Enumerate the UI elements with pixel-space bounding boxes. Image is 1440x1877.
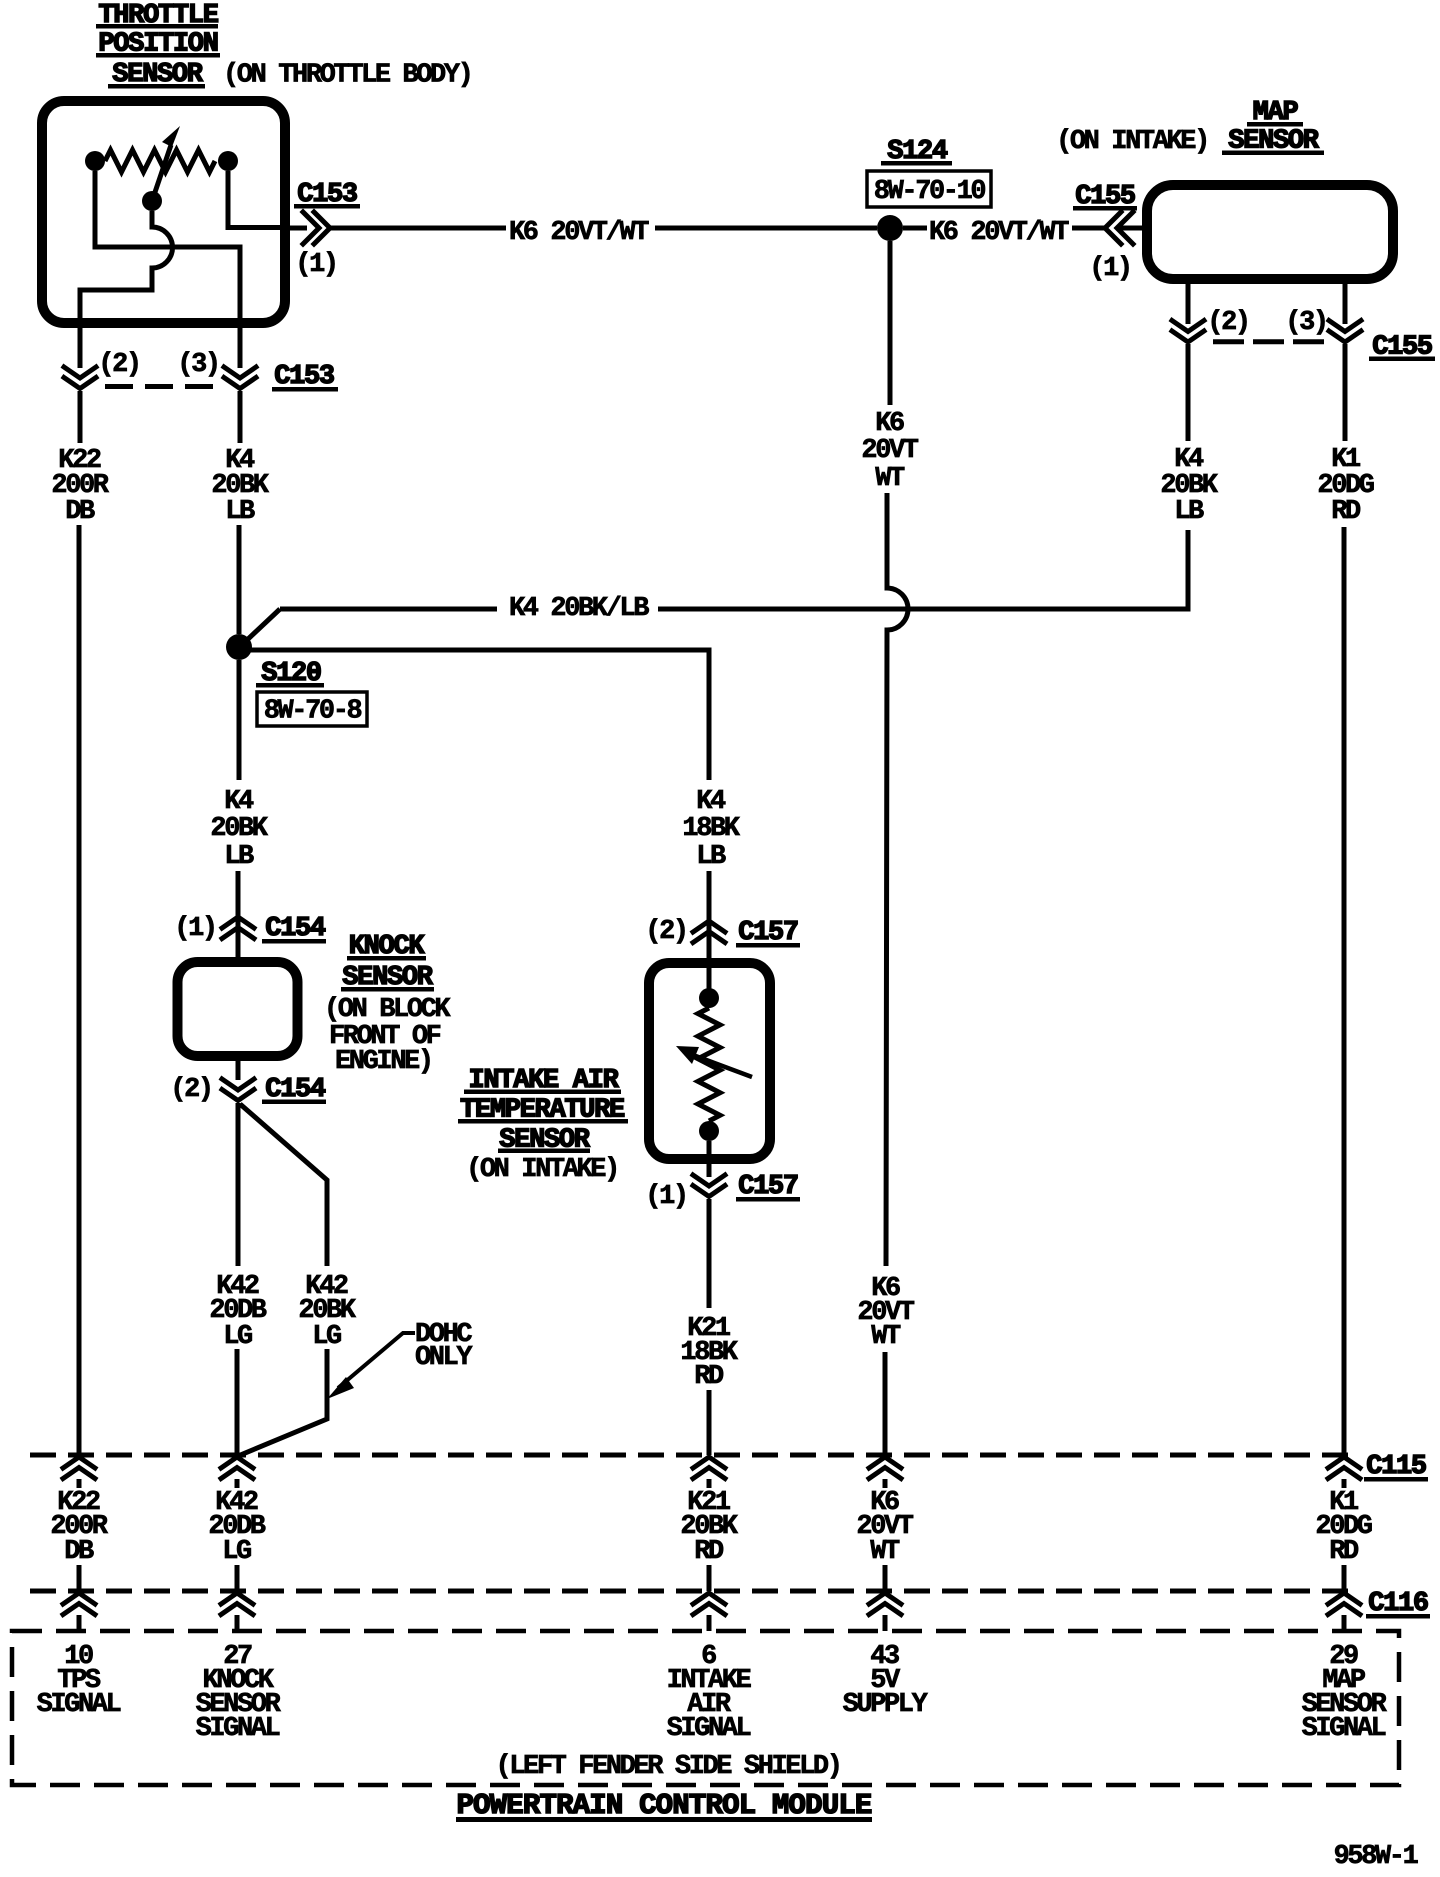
svg-text:(2): (2)	[1207, 308, 1248, 338]
wire label K6 20VT WT upper	[861, 409, 918, 494]
connector C154 pin 1 chevrons	[222, 917, 254, 939]
potentiometer left terminal dot	[85, 151, 105, 171]
wire K1 from chevron to label	[1343, 344, 1348, 441]
svg-text:(2): (2)	[98, 350, 139, 380]
connector C155 pin 1 label	[1073, 182, 1137, 212]
potentiometer wiper arrow	[152, 126, 180, 201]
potentiometer right terminal dot	[218, 151, 238, 171]
connector C116 chevrons col MAP	[1328, 1593, 1360, 1615]
wire S120 branch to intake air temperature sensor	[250, 650, 709, 780]
connector C115 chevrons col K6	[869, 1457, 901, 1479]
svg-text:(1): (1)	[1089, 254, 1130, 284]
wire stub K6 below C115	[883, 1479, 888, 1488]
svg-text:(1): (1)	[645, 1182, 686, 1212]
svg-text:WT: WT	[870, 1537, 900, 1567]
PCM pin 10 TPS SIGNAL	[37, 1642, 121, 1720]
wire diagonal from S120 to K4 horizontal run	[247, 609, 280, 640]
potentiometer wiper dot	[142, 191, 162, 211]
svg-text:LG: LG	[312, 1322, 341, 1352]
wire K4 upper stub	[238, 391, 243, 443]
PCM pin 43 5V SUPPLY	[843, 1642, 929, 1720]
DOHC ONLY leader arrow	[327, 1333, 415, 1399]
svg-text:(LEFT FENDER SIDE SHIELD): (LEFT FENDER SIDE SHIELD)	[495, 1752, 840, 1782]
connector C157 pin 1 chevrons	[693, 1175, 725, 1197]
svg-text:8W-70-10: 8W-70-10	[874, 177, 986, 207]
wire label K4 20BK LB map column	[1160, 445, 1218, 527]
svg-text:ONLY: ONLY	[415, 1343, 473, 1373]
connector C115 chevrons col MAP	[1328, 1457, 1360, 1479]
MAP sensor heading	[1056, 98, 1324, 157]
svg-text:20BK: 20BK	[210, 814, 268, 844]
svg-text:(ON INTAKE): (ON INTAKE)	[466, 1155, 618, 1185]
svg-text:LB: LB	[225, 497, 255, 527]
knock sensor heading	[324, 932, 451, 1077]
connector C157 pin 2 label	[736, 918, 800, 948]
svg-text:LB: LB	[1174, 497, 1204, 527]
wire label K4 20BK LB upper	[211, 446, 269, 527]
svg-text:K4 20BK/LB: K4 20BK/LB	[509, 594, 649, 624]
powertrain control module dashed box	[12, 1631, 1399, 1785]
connector C115 dashed line	[30, 1453, 1356, 1458]
svg-text:(1): (1)	[295, 250, 336, 280]
wire stub K1 to C116	[1342, 1565, 1347, 1591]
splice S120 dot	[226, 634, 252, 660]
wire K42 20BK LG branch diagonal from C154	[240, 1104, 327, 1266]
potentiometer resistor	[105, 150, 215, 172]
PCM pin 27 KNOCK SENSOR SIGNAL	[196, 1642, 282, 1744]
splice S124 dot	[877, 215, 903, 241]
svg-text:LB: LB	[696, 842, 726, 872]
svg-text:K6 20VT/WT: K6 20VT/WT	[509, 218, 649, 248]
wire K42 20DB LG to C115	[235, 1349, 240, 1455]
wire label K21 20BK RD lower	[680, 1488, 738, 1567]
wire stub pin 29	[1342, 1615, 1347, 1631]
wire stub K21 to C116	[707, 1565, 712, 1591]
wire label K42 20DB LG	[209, 1272, 266, 1352]
wire K21 to C115	[707, 1390, 712, 1455]
wire MAP pin 3 stub	[1343, 284, 1348, 324]
wire label K6 20VT WT lower2	[856, 1488, 913, 1567]
wire TPS pin3 stub below box	[238, 328, 243, 368]
splice S120 heading	[256, 659, 324, 689]
svg-text:ENGINE): ENGINE)	[335, 1047, 432, 1077]
svg-text:WT: WT	[875, 464, 905, 494]
svg-text:(3): (3)	[177, 350, 218, 380]
wire label K22 200R DB	[51, 446, 109, 527]
svg-text:(1): (1)	[174, 914, 215, 944]
connector C154 pin 2 chevrons	[222, 1079, 254, 1101]
svg-text:RD: RD	[694, 1362, 724, 1392]
svg-text:(ON INTAKE): (ON INTAKE)	[1056, 127, 1208, 157]
PCM pin 29 MAP SENSOR SIGNAL	[1302, 1642, 1388, 1744]
intake air temperature sensor heading	[458, 1066, 628, 1185]
svg-text:K4: K4	[696, 787, 726, 817]
svg-text:958W-1: 958W-1	[1334, 1842, 1419, 1872]
connector C116 label	[1366, 1589, 1430, 1619]
connector C155 dashed link	[1213, 339, 1327, 344]
wire stub pin 6	[707, 1615, 712, 1631]
wire stub pin 43	[883, 1615, 888, 1631]
wire stub K42 to C116	[235, 1565, 240, 1591]
svg-text:(ON THROTTLE BODY): (ON THROTTLE BODY)	[223, 61, 471, 91]
wire K6 20VT/WT from TPS to S124	[287, 226, 877, 231]
svg-text:SIGNAL: SIGNAL	[196, 1714, 280, 1744]
intake air temperature sensor box	[649, 963, 770, 1159]
svg-text:8W-70-8: 8W-70-8	[264, 697, 362, 727]
wire MAP pin 2 stub	[1186, 284, 1191, 324]
wire label K1 20DG RD lower	[1315, 1488, 1371, 1567]
wire label K6 20VT WT lower	[857, 1274, 914, 1352]
wire IAT internal bottom	[707, 1141, 712, 1177]
connector C154 pin 1 label	[262, 914, 326, 944]
wire TPS pin1 internal (right dot to C153-1)	[228, 171, 290, 228]
connector C115 chevrons col knock	[221, 1457, 253, 1479]
wire IAT internal top	[707, 958, 712, 990]
wire K4 below S120	[237, 660, 242, 780]
wire TPS pin2 internal with hop over pin3 wire	[80, 211, 172, 332]
connector C116 chevrons col TPS	[63, 1593, 95, 1615]
IAT thermistor zigzag resistor	[698, 1008, 720, 1121]
svg-text:SIGNAL: SIGNAL	[1302, 1714, 1386, 1744]
wire stub K22 to C116	[77, 1565, 82, 1591]
wire K4 18BK LB to C157	[707, 871, 712, 958]
svg-text:SUPPLY: SUPPLY	[843, 1690, 929, 1720]
PCM pin 6 INTAKE AIR SIGNAL	[667, 1642, 752, 1744]
connector C155 pin 2 chevrons	[1172, 321, 1204, 343]
connector C153 pin 3 chevrons	[224, 367, 256, 389]
wire label K42 20BK LG	[298, 1272, 356, 1352]
wire label K1 20DG RD upper	[1317, 445, 1373, 527]
svg-text:LB: LB	[224, 842, 254, 872]
connector C155 label	[1369, 333, 1435, 363]
connector C116 chevrons col K6	[869, 1593, 901, 1615]
wire label K4 18BK LB	[682, 787, 740, 872]
connector C153 dashed link	[105, 384, 214, 389]
wire label K21 18BK RD	[680, 1314, 738, 1392]
wire K42 20BK LG down and diagonal to C115	[238, 1349, 327, 1456]
svg-text:20VT: 20VT	[861, 436, 918, 466]
wire knock sensor to C154 pin 2	[236, 1056, 241, 1080]
wire MAP pin 2 from chevron to label	[1186, 344, 1191, 441]
svg-text:DB: DB	[64, 1537, 94, 1567]
wire TPS pin3 internal (left dot to bottom)	[95, 171, 240, 332]
wire K6 20VT/WT from S124 to MAP sensor	[903, 226, 1142, 231]
wire label K42 20DB LG lower	[208, 1488, 265, 1567]
connector C154 pin 2 label	[262, 1075, 326, 1105]
svg-text:K6: K6	[875, 409, 904, 439]
splice S124 reference box 8W-70-10	[867, 171, 991, 207]
knock sensor box	[178, 962, 298, 1056]
wire K42 20DB LG from C154 down	[236, 1103, 241, 1266]
powertrain control module heading	[456, 1789, 872, 1822]
wire K4 from label to splice S120	[237, 525, 242, 634]
wire label K22 200R DB lower	[50, 1488, 108, 1567]
wire K6 from S124 down	[888, 241, 893, 405]
connector C153 pin 1 chevrons	[303, 212, 330, 244]
throttle position sensor heading	[96, 1, 471, 91]
svg-text:RD: RD	[694, 1537, 724, 1567]
wire stub K1 below C115	[1342, 1479, 1347, 1488]
connector C116 chevrons col knock	[221, 1593, 253, 1615]
svg-text:SIGNAL: SIGNAL	[37, 1690, 121, 1720]
wire stub pin 27	[235, 1615, 240, 1631]
DOHC ONLY note	[415, 1320, 473, 1373]
wire K1 long run to C115	[1342, 527, 1347, 1455]
svg-text:LG: LG	[222, 1537, 251, 1567]
IAT thermistor arrow	[676, 1046, 752, 1077]
connector C115 chevrons col TPS	[63, 1457, 95, 1479]
connector C155 pin 3 chevrons	[1329, 321, 1361, 343]
wire K4 to C154	[236, 871, 241, 957]
svg-text:LG: LG	[223, 1322, 252, 1352]
wire K22 long run to C115	[77, 525, 82, 1455]
connector C155 pin 1 chevrons	[1105, 212, 1133, 244]
svg-text:K6 20VT/WT: K6 20VT/WT	[929, 218, 1069, 248]
IAT thermistor bottom dot	[699, 1121, 719, 1141]
splice S120 reference box 8W-70-8	[257, 692, 367, 727]
wire K6 with hop over K4 horizontal run	[886, 493, 908, 1266]
connector C153 pin 1 label	[294, 180, 360, 210]
MAP sensor box	[1147, 185, 1393, 279]
svg-text:(2): (2)	[170, 1075, 211, 1105]
svg-text:(2): (2)	[645, 917, 686, 947]
svg-text:SIGNAL: SIGNAL	[667, 1714, 751, 1744]
connector C115 label	[1364, 1452, 1428, 1482]
wire TPS pin2 stub below box	[78, 328, 83, 368]
svg-text:RD: RD	[1331, 497, 1361, 527]
svg-text:K4: K4	[224, 787, 254, 817]
IAT thermistor top dot	[699, 988, 719, 1008]
wire stub K6 to C116	[883, 1565, 888, 1591]
svg-text:WT: WT	[871, 1322, 901, 1352]
connector C116 chevrons col IAT	[693, 1593, 725, 1615]
wire label K4 20BK LB knock column	[210, 787, 268, 872]
wire stub K22 below C115	[77, 1479, 82, 1488]
wire K21 18BK RD from C157	[707, 1199, 712, 1308]
connector C153 label	[272, 362, 338, 392]
wire stub K21 below C115	[707, 1479, 712, 1488]
splice S124 heading	[881, 137, 952, 167]
wire K6 to C115	[883, 1352, 888, 1455]
throttle position sensor box	[42, 101, 285, 323]
wire stub K42 below C115	[235, 1479, 240, 1488]
connector C157 pin 2 chevrons	[693, 921, 725, 943]
connector C116 dashed line	[30, 1589, 1356, 1594]
wire K22 upper stub	[78, 391, 83, 443]
svg-text:(3): (3)	[1285, 308, 1326, 338]
svg-text:DB: DB	[65, 497, 95, 527]
svg-text:RD: RD	[1329, 1537, 1359, 1567]
wire K4 20BK/LB horizontal run to MAP pin 2	[280, 530, 1188, 609]
svg-text:(ON BLOCK: (ON BLOCK	[324, 995, 451, 1025]
wire stub pin 10	[77, 1615, 82, 1631]
connector C157 pin 1 label	[736, 1172, 800, 1202]
connector C153 pin 2 chevrons	[64, 367, 96, 389]
svg-text:18BK: 18BK	[682, 814, 740, 844]
connector C115 chevrons col IAT	[693, 1457, 725, 1479]
